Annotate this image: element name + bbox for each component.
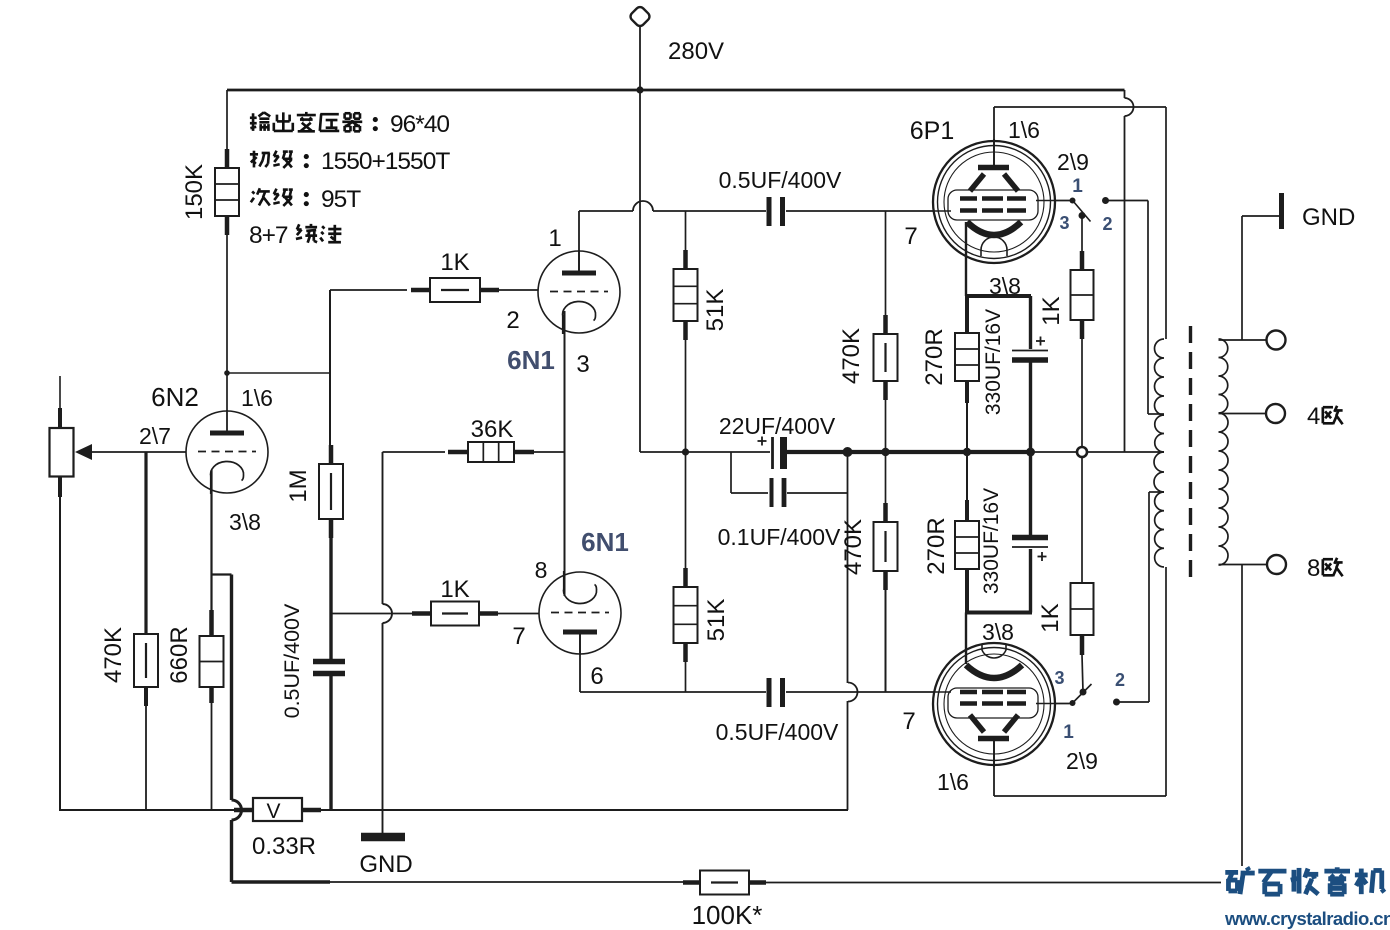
svg-text:GND: GND — [1302, 204, 1355, 231]
svg-text:100K*: 100K* — [692, 900, 763, 930]
svg-text:4: 4 — [1307, 403, 1320, 430]
svg-text:51K: 51K — [703, 599, 730, 642]
svg-text:1: 1 — [1063, 722, 1074, 743]
svg-text:150K: 150K — [181, 164, 208, 220]
svg-text:8: 8 — [535, 557, 548, 583]
svg-text:330UF/16V: 330UF/16V — [982, 309, 1005, 415]
svg-text:270R: 270R — [921, 328, 948, 385]
svg-text:0.33R: 0.33R — [252, 833, 316, 860]
svg-text:1K: 1K — [440, 249, 469, 276]
svg-text:1\6: 1\6 — [937, 769, 969, 795]
svg-text:3: 3 — [1054, 668, 1064, 688]
svg-text:470K: 470K — [100, 627, 127, 683]
svg-text:1K: 1K — [440, 576, 469, 603]
svg-text:1K: 1K — [1037, 603, 1064, 632]
svg-text:330UF/16V: 330UF/16V — [980, 488, 1003, 594]
svg-text:2: 2 — [1102, 214, 1112, 234]
svg-text:96*40: 96*40 — [390, 111, 449, 138]
svg-text:3\8: 3\8 — [982, 619, 1014, 645]
svg-text:8+7: 8+7 — [249, 222, 288, 249]
svg-text:2\9: 2\9 — [1057, 149, 1089, 175]
svg-text:1\6: 1\6 — [241, 385, 273, 411]
svg-text:7: 7 — [512, 623, 525, 650]
svg-text:7: 7 — [904, 223, 917, 250]
svg-text:2\9: 2\9 — [1066, 748, 1098, 774]
svg-text:1550+1550T: 1550+1550T — [321, 148, 450, 175]
svg-text:6N1: 6N1 — [581, 527, 629, 557]
svg-text:1\6: 1\6 — [1008, 117, 1040, 143]
svg-text:6N1: 6N1 — [507, 345, 555, 375]
svg-text:470K: 470K — [838, 328, 865, 384]
svg-text:GND: GND — [359, 851, 412, 878]
svg-text:3\8: 3\8 — [229, 509, 261, 535]
svg-text:1K: 1K — [1038, 296, 1065, 325]
svg-text:0.1UF/400V: 0.1UF/400V — [718, 524, 841, 550]
svg-text:1: 1 — [548, 225, 561, 252]
svg-text:6: 6 — [590, 663, 603, 690]
svg-text:0.5UF/400V: 0.5UF/400V — [719, 167, 842, 193]
svg-text:8: 8 — [1307, 555, 1320, 582]
svg-text:0.5UF/400V: 0.5UF/400V — [716, 719, 839, 745]
svg-text:3: 3 — [1059, 213, 1069, 233]
svg-text:3\8: 3\8 — [989, 273, 1021, 299]
svg-text:22UF/400V: 22UF/400V — [719, 413, 836, 439]
svg-text:www.crystalradio.cn: www.crystalradio.cn — [1224, 908, 1390, 929]
svg-text:6P1: 6P1 — [910, 117, 954, 145]
svg-text:2: 2 — [506, 307, 519, 334]
svg-text:6N2: 6N2 — [151, 382, 199, 412]
svg-text:36K: 36K — [471, 416, 514, 443]
svg-text:660R: 660R — [166, 626, 193, 683]
svg-text:1M: 1M — [285, 469, 312, 502]
svg-text:95T: 95T — [321, 186, 361, 213]
svg-text:470K: 470K — [840, 519, 867, 575]
svg-text:2\7: 2\7 — [139, 423, 171, 449]
svg-text:51K: 51K — [702, 289, 729, 332]
svg-text:1: 1 — [1072, 176, 1083, 197]
svg-text:0.5UF/400V: 0.5UF/400V — [280, 603, 304, 718]
svg-text:270R: 270R — [923, 517, 950, 574]
svg-text:V: V — [266, 800, 280, 823]
svg-text:280V: 280V — [668, 38, 724, 65]
svg-text:3: 3 — [576, 351, 589, 378]
svg-text:2: 2 — [1115, 670, 1125, 690]
svg-text:7: 7 — [902, 708, 915, 735]
